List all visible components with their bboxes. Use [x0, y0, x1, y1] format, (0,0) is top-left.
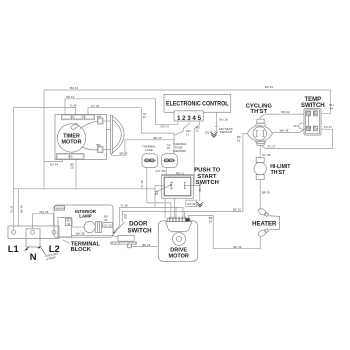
svg-text:SWITCH: SWITCH: [301, 103, 325, 109]
svg-text:MOTOR: MOTOR: [62, 140, 82, 146]
wire BK26 door to motor: [132, 243, 158, 247]
timer WH contact square: [97, 115, 111, 124]
svg-text:N: N: [30, 251, 37, 262]
svg-text:24: 24: [143, 115, 147, 119]
svg-text:34: 34: [67, 222, 71, 226]
interior lamp box: [54, 205, 113, 237]
svg-text:BR: BR: [97, 143, 101, 147]
svg-text:YL 41: YL 41: [9, 205, 13, 213]
svg-text:37: 37: [314, 128, 318, 132]
timer motor circle: [57, 121, 97, 152]
svg-text:21: 21: [196, 129, 200, 133]
wire node x155 to relay: [155, 185, 164, 207]
thermal fuse: [142, 144, 158, 167]
electronic control box: [164, 94, 231, 112]
wire YL45: [14, 104, 78, 115]
svg-text:LAMP: LAMP: [79, 214, 92, 219]
svg-text:GN: GN: [205, 130, 209, 134]
svg-text:BK 32: BK 32: [233, 208, 241, 212]
timer top terminal 3: [85, 115, 95, 120]
wire relay right to ground: [184, 183, 202, 201]
ground strap symbol: [24, 246, 58, 261]
svg-text:PU 37: PU 37: [324, 125, 332, 129]
wire BK33 heater bottom: [213, 237, 260, 249]
wire YL36 door switch line: [114, 203, 183, 232]
connector GY12: [102, 223, 115, 232]
wire WH38: [272, 129, 305, 133]
svg-text:(GY 25): (GY 25): [155, 169, 165, 173]
wire GY25 fuse run: [140, 168, 171, 219]
svg-text:BK 33: BK 33: [233, 245, 241, 249]
ground GN39: [186, 200, 203, 207]
cycling thermostat: [246, 104, 273, 146]
svg-text:BU 44: BU 44: [70, 86, 78, 90]
hi-limit thermostat: [254, 158, 291, 180]
svg-text:TH'ST: TH'ST: [251, 109, 268, 115]
svg-text:ELECTRONIC CONTROL: ELECTRONIC CONTROL: [166, 101, 229, 108]
svg-text:GN 39: GN 39: [187, 202, 196, 206]
wire RD21 upper: [194, 121, 200, 176]
timer cam: [107, 115, 125, 154]
svg-text:TH'ST: TH'ST: [271, 170, 286, 176]
svg-text:YL 36: YL 36: [120, 203, 128, 207]
svg-text:38: 38: [307, 128, 311, 132]
wire BU19 dryness sensor: [214, 112, 228, 133]
wire BK32 cycling vertical: [237, 133, 248, 211]
svg-text:PU 38: PU 38: [262, 153, 270, 157]
svg-text:WH 38: WH 38: [280, 129, 289, 133]
svg-text:WH 28: WH 28: [76, 232, 85, 236]
wire PU38: [260, 145, 271, 157]
wire YL41 L1 vertical: [9, 107, 13, 230]
temp switch: [301, 97, 325, 135]
svg-text:SWITCH: SWITCH: [196, 180, 219, 186]
wire neutral horizontal: [14, 188, 156, 190]
timer top terminal 1: [62, 115, 72, 120]
ground dryness sensor: [205, 127, 233, 138]
svg-text:BLOCK: BLOCK: [71, 247, 92, 253]
terminal block label: [63, 240, 101, 253]
svg-text:OR 14: OR 14: [66, 95, 75, 99]
svg-text:GY 24: GY 24: [91, 104, 100, 108]
svg-text:SWITCH: SWITCH: [127, 228, 151, 235]
wire BK40 vertical: [19, 189, 24, 226]
svg-text:FUSE: FUSE: [145, 148, 153, 152]
control terminal strip 12345: [174, 111, 203, 122]
svg-text:RD 42: RD 42: [281, 110, 290, 114]
svg-text:PU 37: PU 37: [267, 145, 275, 149]
svg-text:BK 26: BK 26: [142, 243, 150, 247]
interior lamp bulb: [72, 214, 109, 232]
wire relay bottom pins: [165, 198, 174, 218]
thermal fuse (heater): [162, 142, 188, 167]
svg-text:40: 40: [104, 218, 108, 222]
svg-text:L1: L1: [8, 243, 19, 254]
wire timer neutral BU44: [44, 160, 63, 167]
svg-text:BK 40: BK 40: [20, 205, 24, 213]
svg-text:GN: GN: [293, 124, 297, 128]
svg-text:32: 32: [237, 139, 241, 143]
wire BR35: [260, 180, 270, 210]
wire BK33 motor vertical: [189, 215, 214, 248]
svg-text:BR 15: BR 15: [119, 152, 127, 156]
svg-text:(HEATER): (HEATER): [173, 149, 186, 153]
svg-text:BR 35: BR 35: [262, 191, 270, 195]
svg-text:1 2 3 4 5: 1 2 3 4 5: [177, 115, 201, 122]
svg-text:DOOR: DOOR: [129, 221, 148, 228]
svg-text:44: 44: [314, 113, 318, 117]
terminal block: [8, 226, 60, 262]
svg-text:17: 17: [186, 133, 190, 137]
svg-text:BU 44: BU 44: [50, 163, 58, 167]
drive motor: [158, 217, 197, 262]
svg-text:WH: WH: [97, 115, 102, 119]
svg-text:YL 10: YL 10: [140, 180, 144, 188]
wire RD21 lower: [161, 168, 194, 186]
door switch: [111, 221, 152, 248]
svg-text:BU 44: BU 44: [265, 85, 273, 89]
timer top terminal 2: [73, 115, 83, 120]
svg-text:WH 28: WH 28: [39, 210, 48, 214]
svg-text:WH 40: WH 40: [56, 206, 65, 210]
svg-text:33: 33: [209, 219, 213, 223]
heater: [252, 207, 279, 237]
wire timer BK15: [70, 160, 76, 190]
wire RD42: [260, 110, 304, 117]
wire OR14 / DR14 to control: [65, 95, 178, 129]
wire WH28 lamp to door: [72, 232, 119, 238]
wire GY24: [88, 104, 174, 154]
svg-text:HEATER: HEATER: [252, 222, 277, 228]
push to start switch relay: [155, 168, 221, 199]
svg-text:PUSH TO: PUSH TO: [194, 168, 220, 174]
wire BU44 top bus: [44, 85, 334, 113]
svg-text:44: 44: [330, 106, 334, 110]
svg-text:START: START: [197, 174, 217, 180]
wire BU44 left vertical: [43, 90, 45, 189]
wire WH28 terminal to L2: [33, 210, 54, 229]
svg-text:MOTOR: MOTOR: [169, 254, 189, 260]
svg-text:YL 45: YL 45: [69, 104, 77, 108]
timer bottom terminal 1: [57, 154, 70, 160]
svg-text:GY 12: GY 12: [104, 223, 113, 227]
wire BK32 long line: [122, 208, 242, 220]
svg-text:BR 15: BR 15: [153, 136, 161, 140]
wire PU37: [262, 125, 333, 148]
timer motor assembly: [55, 115, 107, 160]
timer BR contact square: [97, 143, 111, 152]
svg-text:DR 14: DR 14: [161, 125, 170, 129]
svg-text:15: 15: [70, 166, 74, 170]
GN jumper curl: [293, 123, 306, 129]
wire BR15 run: [111, 136, 174, 155]
svg-text:36: 36: [155, 192, 159, 196]
svg-text:25: 25: [167, 146, 171, 150]
wire WH17 run: [174, 121, 191, 137]
svg-text:SENSOR: SENSOR: [220, 130, 232, 134]
timer bottom terminal 2: [71, 154, 84, 160]
svg-text:36: 36: [124, 216, 128, 220]
svg-text:BU 19: BU 19: [220, 117, 228, 121]
